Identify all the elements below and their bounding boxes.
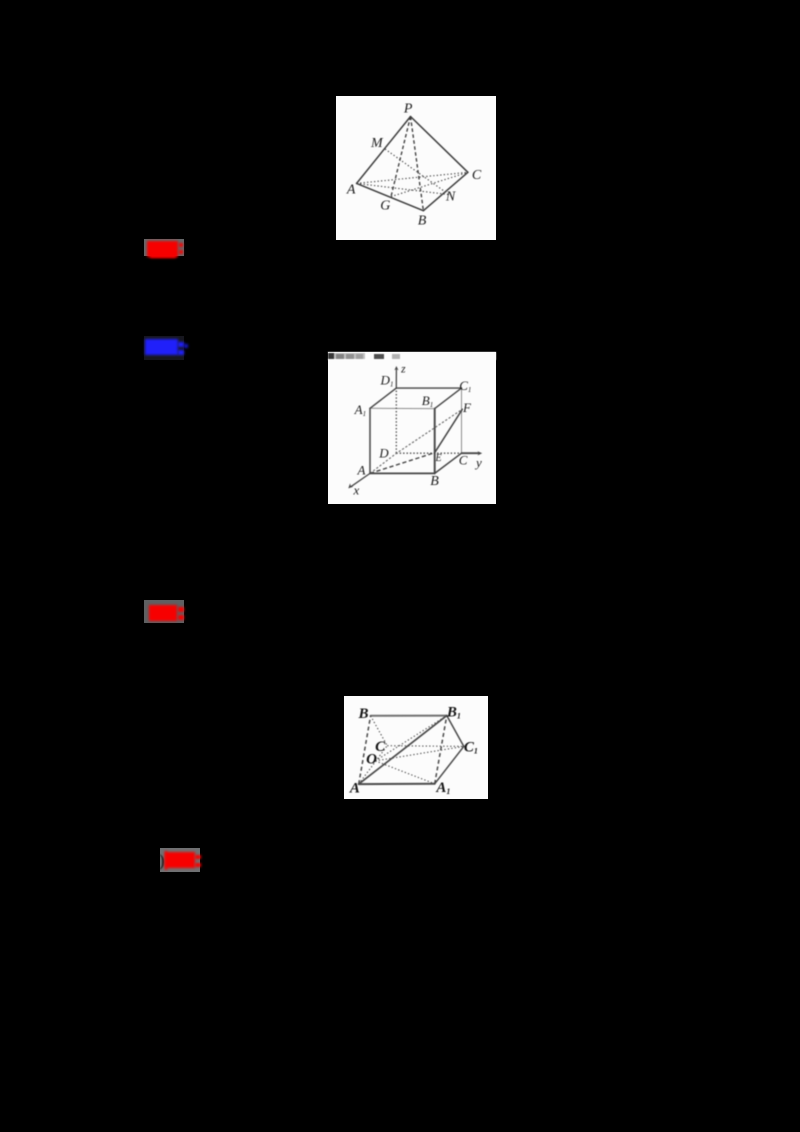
- edge AA1: [369, 408, 371, 473]
- svg-text:C: C: [472, 168, 482, 183]
- svg-text:B1: B1: [446, 704, 461, 720]
- svg-text:F: F: [462, 400, 472, 415]
- y axis: [462, 452, 479, 454]
- diagonal AB1: [359, 715, 447, 784]
- edge AB: [356, 183, 423, 210]
- red tag 2 "答案:" highlighted: [144, 600, 184, 624]
- segment MN dotted: [385, 149, 449, 195]
- cropped gray text strip: [328, 352, 496, 360]
- edge AC dotted through O: [359, 745, 388, 783]
- svg-text:O: O: [366, 751, 377, 767]
- edge CC1: [461, 388, 463, 453]
- cevian PG dashed: [391, 116, 411, 196]
- svg-text:A1: A1: [435, 780, 450, 796]
- figure 3: prism ABC-A1B1C1: [344, 696, 488, 800]
- svg-text:x: x: [353, 483, 360, 498]
- edge A1B1: [370, 407, 435, 409]
- segment AN dotted: [356, 183, 448, 194]
- edge D1C1: [396, 387, 461, 389]
- edge A1B1 dashed: [435, 715, 447, 783]
- edge DC dotted: [396, 452, 461, 454]
- svg-text:D1: D1: [380, 373, 394, 389]
- edge AA1 bottom: [359, 782, 435, 784]
- svg-text:B: B: [357, 706, 368, 722]
- svg-text:P: P: [403, 101, 413, 116]
- red tag 1 "答案:" highlighted: [144, 239, 184, 256]
- svg-text:D: D: [378, 446, 389, 461]
- edge B1C1: [435, 388, 462, 409]
- edge BC: [435, 453, 462, 473]
- figure 2: cube ABCD-A1B1C1D1 with axes: [328, 352, 496, 504]
- svg-text:A: A: [349, 780, 360, 796]
- svg-text:C1: C1: [464, 739, 478, 755]
- segment GC dotted: [391, 172, 468, 196]
- edge BB1 top: [371, 714, 447, 716]
- edge CC1 dotted: [387, 744, 464, 747]
- svg-text:G: G: [380, 198, 390, 213]
- x axis: [351, 473, 370, 486]
- svg-text:N: N: [445, 189, 456, 204]
- segment OC1 dotted: [375, 746, 464, 761]
- svg-text:C1: C1: [459, 378, 471, 394]
- edge B1C1: [447, 715, 464, 746]
- edge PC: [410, 116, 467, 172]
- svg-text:E: E: [435, 453, 442, 464]
- svg-text:B: B: [430, 474, 439, 489]
- edge A1D1: [370, 388, 396, 408]
- segment OB1 dotted: [375, 715, 447, 760]
- blue tag "解析:" highlighted: [144, 336, 184, 360]
- edge BC: [423, 172, 468, 210]
- svg-text:B1: B1: [422, 393, 433, 409]
- svg-text:A1: A1: [354, 402, 366, 418]
- svg-text:B: B: [417, 213, 426, 228]
- edge AB dashed: [359, 715, 371, 783]
- z axis: [395, 370, 397, 389]
- svg-text:C: C: [459, 453, 468, 468]
- segment AE dashed: [370, 453, 435, 474]
- edge BC dotted: [371, 715, 388, 745]
- svg-text:A: A: [346, 182, 356, 197]
- segment OA1 dotted: [375, 761, 434, 784]
- edge DD1 dotted: [395, 388, 397, 453]
- edge PA: [356, 116, 410, 183]
- edge PB dashed: [410, 116, 423, 210]
- edge A1C1: [435, 746, 464, 783]
- diagonal AF fine dashed through D: [370, 409, 462, 473]
- figure 1: tetrahedron P-ABC: [336, 96, 496, 240]
- svg-text:y: y: [474, 455, 482, 470]
- svg-text:M: M: [370, 136, 384, 151]
- svg-text:A: A: [357, 463, 366, 478]
- ")" + red tag 3 "解析:" highlighted: [160, 848, 200, 872]
- svg-text:z: z: [400, 364, 406, 376]
- edge BB1: [434, 409, 436, 474]
- segment EF solid: [435, 409, 463, 452]
- edge AB: [370, 472, 435, 474]
- edge AC dotted: [356, 172, 467, 183]
